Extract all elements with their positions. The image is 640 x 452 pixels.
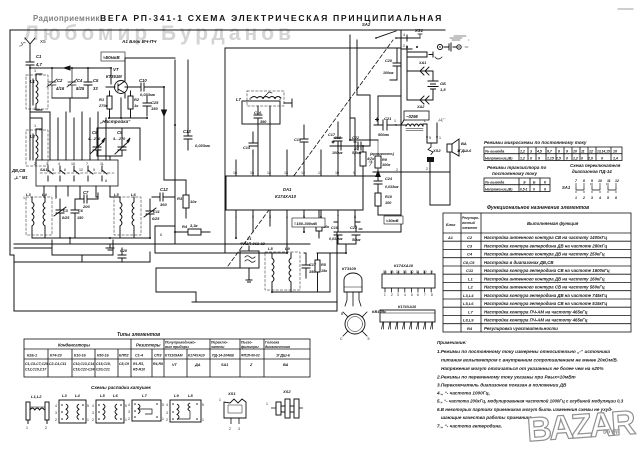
inductor L5 L6 pinout xyxy=(92,393,127,423)
capacitor C19 xyxy=(329,226,343,244)
svg-text:“: “ xyxy=(468,38,470,43)
svg-text:С25: С25 xyxy=(151,100,159,105)
transistor package KT3109 xyxy=(342,266,362,306)
svg-text:6/25: 6/25 xyxy=(152,217,160,221)
svg-text:4…270: 4…270 xyxy=(112,137,126,141)
ground xyxy=(106,244,114,250)
IC package bottom view xyxy=(380,305,435,329)
svg-text:7: 7 xyxy=(575,179,578,183)
svg-text:С11: С11 xyxy=(466,268,474,273)
svg-text:Напряжения могут отличаться от: Напряжения могут отличаться от указанных… xyxy=(441,365,604,371)
svg-text:3: 3 xyxy=(55,411,57,415)
svg-text:2: 2 xyxy=(426,167,428,171)
svg-text:SA1: SA1 xyxy=(221,363,228,367)
svg-text:„Ц“¯: „Ц“¯ xyxy=(438,117,447,122)
svg-text:динамическая: динамическая xyxy=(265,345,290,349)
svg-text:С2: С2 xyxy=(57,78,63,83)
svg-text:4: 4 xyxy=(403,33,405,37)
svg-text:1,8: 1,8 xyxy=(440,87,446,92)
speaker BA xyxy=(447,139,472,156)
svg-text:элемент: элемент xyxy=(462,226,477,230)
capacitor C25 xyxy=(143,96,159,116)
svg-text:0,033мк: 0,033мк xyxy=(195,143,211,148)
svg-text:ХS2: ХS2 xyxy=(432,148,441,153)
svg-text:„L“ М1: „L“ М1 xyxy=(13,175,28,180)
svg-text:С20: С20 xyxy=(120,249,128,253)
node notes xyxy=(436,340,624,429)
svg-text:L3,L4: L3,L4 xyxy=(463,293,474,298)
capacitor C10 xyxy=(125,78,164,97)
svg-text:1: 1 xyxy=(87,418,89,422)
svg-text:390: 390 xyxy=(260,120,267,124)
inductor L3 L4 tank xyxy=(26,192,52,238)
svg-text:С24: С24 xyxy=(385,177,393,181)
svg-text:4: 4 xyxy=(92,404,94,408)
connector XS2 xyxy=(373,143,450,205)
svg-text:3: 3 xyxy=(279,97,281,101)
svg-text:С2-С4,С11: С2-С4,С11 xyxy=(49,362,66,366)
svg-text:R1-R3,: R1-R3, xyxy=(133,362,144,366)
svg-text:3,3к: 3,3к xyxy=(190,223,199,228)
svg-text:R2: R2 xyxy=(134,97,140,102)
svg-text:С5: С5 xyxy=(93,78,99,83)
svg-text:Э: Э xyxy=(367,337,370,341)
svg-text:R1: R1 xyxy=(99,97,105,102)
resistor R1 xyxy=(98,91,112,118)
svg-text:ХА1: ХА1 xyxy=(418,61,426,65)
svg-text:R5-R10: R5-R10 xyxy=(133,368,145,372)
svg-text:С13: С13 xyxy=(183,129,191,134)
svg-text:1,2: 1,2 xyxy=(573,156,578,160)
inductor L2 shield xyxy=(26,130,48,166)
corner mark top right xyxy=(618,8,633,10)
svg-text:L7: L7 xyxy=(468,309,473,314)
svg-text:14: 14 xyxy=(396,270,400,274)
svg-text:Выполняемая функция: Выполняемая функция xyxy=(527,221,579,226)
svg-text:5: 5 xyxy=(162,403,164,407)
svg-text:5: 5 xyxy=(411,293,413,297)
capacitor C2 trimmer xyxy=(47,68,65,98)
svg-text:L7: L7 xyxy=(236,97,242,102)
inductor L8 L9 xyxy=(265,245,300,292)
switch SA2 xyxy=(362,22,401,39)
svg-text:1,4: 1,4 xyxy=(613,156,618,160)
svg-text:33: 33 xyxy=(93,86,98,91)
svg-text:L2: L2 xyxy=(468,285,473,290)
variable capacitor C8 xyxy=(87,130,105,156)
svg-text:L5,L6: L5,L6 xyxy=(463,301,474,306)
svg-text:12: 12 xyxy=(589,150,593,154)
svg-text:L4: L4 xyxy=(42,192,47,197)
svg-text:8/25: 8/25 xyxy=(76,86,85,91)
svg-text:13: 13 xyxy=(403,270,407,274)
capacitor C24 xyxy=(374,177,399,193)
svg-text:С11: С11 xyxy=(153,210,160,214)
svg-text:К174ХА10: К174ХА10 xyxy=(398,305,417,309)
svg-text:0,033мк: 0,033мк xyxy=(329,237,343,241)
svg-text:BAZAR: BAZAR xyxy=(526,404,637,449)
svg-text:ВА: ВА xyxy=(283,363,289,367)
svg-text:5.„ “- частота 200кГц, модулир: 5.„ “- частота 200кГц, модулированная ча… xyxy=(437,399,624,404)
svg-text:R3: R3 xyxy=(177,196,183,201)
svg-text:150: 150 xyxy=(77,216,84,220)
svg-text:3: 3 xyxy=(128,410,130,414)
svg-text:С3: С3 xyxy=(63,209,69,213)
svg-text:Регулиро-: Регулиро- xyxy=(462,216,480,220)
diode package KV109 xyxy=(340,309,387,341)
svg-text:10к: 10к xyxy=(190,199,197,204)
svg-text:SA1: SA1 xyxy=(562,185,571,190)
svg-text:2: 2 xyxy=(34,162,36,166)
svg-text:2: 2 xyxy=(92,418,94,422)
capacitor C22 xyxy=(350,136,370,155)
wire dashed mechanical link SA1-SA2 xyxy=(228,40,393,266)
contacts xyxy=(48,166,107,181)
svg-text:8: 8 xyxy=(558,150,560,154)
svg-text:150: 150 xyxy=(151,106,158,111)
capacitor C26 xyxy=(118,248,128,262)
inductor L7 pinout xyxy=(128,393,164,421)
wire verticals into SA1 xyxy=(30,112,106,160)
svg-text:Функциональное назначение эл: Функциональное назначение элементов xyxy=(487,205,589,211)
wire L7 to IC xyxy=(258,106,270,176)
svg-text:Режимы транзистора по: Режимы транзистора по xyxy=(487,165,546,170)
node junction dots xyxy=(29,46,418,293)
svg-text:Z1: Z1 xyxy=(246,237,251,241)
svg-text:11: 11 xyxy=(100,162,104,166)
wire right section joins xyxy=(338,95,401,215)
svg-text:ХS1: ХS1 xyxy=(227,391,236,396)
svg-text:1: 1 xyxy=(26,426,28,430)
svg-text:9: 9 xyxy=(93,168,95,172)
capacitor C23 xyxy=(350,226,362,244)
svg-text:4.„ “- частота 1000Гц,: 4.„ “- частота 1000Гц, xyxy=(436,391,490,396)
svg-text:1.Режимы по постоянному току и: 1.Режимы по постоянному току измерены от… xyxy=(437,349,610,354)
wire SA1 to tanks xyxy=(44,186,110,199)
svg-text:1: 1 xyxy=(575,196,577,200)
svg-text:L9: L9 xyxy=(285,246,290,251)
svg-text:0: 0 xyxy=(566,156,568,160)
svg-text:SA1: SA1 xyxy=(40,168,47,172)
svg-text:вые приборы: вые приборы xyxy=(165,345,189,349)
svg-text:С22: С22 xyxy=(352,136,360,140)
resistor R5 xyxy=(315,253,328,292)
svg-text:Типы элементов: Типы элементов xyxy=(117,332,160,338)
svg-text:0: 0 xyxy=(533,187,535,191)
node pin labels small xyxy=(23,107,247,237)
svg-text:С1: С1 xyxy=(36,54,42,59)
svg-text:~0298: ~0298 xyxy=(406,114,418,119)
node table1 xyxy=(484,147,622,161)
frame block A1 xyxy=(10,30,445,311)
svg-text:А1 Блок ВЧ-ПЧ: А1 Блок ВЧ-ПЧ xyxy=(121,39,157,44)
svg-text:R4,R9: R4,R9 xyxy=(153,362,163,366)
wire IC bottom pins xyxy=(236,210,355,253)
svg-text:ВЕГА РП-341-1 СХЕМА ЭЛЕКТРИЧ: ВЕГА РП-341-1 СХЕМА ЭЛЕКТРИЧЕСКАЯ ПРИНЦИ… xyxy=(100,13,443,23)
svg-text:С8,С9: С8,С9 xyxy=(119,362,129,366)
svg-text:15: 15 xyxy=(390,270,394,274)
svg-text:1: 1 xyxy=(23,196,25,200)
svg-text:50мк: 50мк xyxy=(352,238,361,242)
filter Z1 xyxy=(240,237,266,282)
svg-text:Радиоприемник: Радиоприемник xyxy=(33,14,100,23)
svg-text:КТ361М: КТ361М xyxy=(106,74,122,79)
svg-text:2: 2 xyxy=(55,196,57,200)
svg-text:С1,С5-С7,С25,: С1,С5-С7,С25, xyxy=(25,362,49,366)
connector XA2 xyxy=(416,96,429,109)
svg-text:С1-4: С1-4 xyxy=(135,354,143,358)
svg-text:8: 8 xyxy=(431,293,433,297)
svg-text:6: 6 xyxy=(544,187,546,191)
svg-text:шающие качества работы приемни: шающие качества работы приемника. xyxy=(441,414,533,420)
svg-text:3: 3 xyxy=(238,427,240,431)
svg-text:К: К xyxy=(544,181,547,185)
svg-text:1ГДШ-6: 1ГДШ-6 xyxy=(276,354,291,358)
svg-text:К174ХА10: К174ХА10 xyxy=(188,354,205,358)
wire long mid verticals xyxy=(162,87,167,180)
svg-text:1,2: 1,2 xyxy=(520,150,525,154)
connector XS2 drawing xyxy=(266,389,303,418)
wire mid bottom buses xyxy=(155,226,337,302)
resistor R9 potentiometer volume xyxy=(369,140,395,177)
svg-text:Примечание:: Примечание: xyxy=(437,340,467,345)
svg-text:К50-16: К50-16 xyxy=(97,354,110,358)
svg-text:4: 4 xyxy=(55,404,57,408)
svg-text:Настройка контура ПЧ-АМ на час: Настройка контура ПЧ-АМ на частоту 465кГ… xyxy=(484,318,588,323)
svg-text:15к: 15к xyxy=(321,269,328,273)
resistor R7 potentiometer xyxy=(354,146,375,176)
svg-text:5: 5 xyxy=(607,196,609,200)
svg-text:R4: R4 xyxy=(182,224,188,229)
wire tuning gang xyxy=(97,128,140,160)
svg-text:5: 5 xyxy=(87,404,89,408)
svg-text:6: 6 xyxy=(538,156,540,160)
svg-text:Режимы микросхемы по постоя: Режимы микросхемы по постоянному току xyxy=(484,140,587,145)
svg-text:С4: С4 xyxy=(77,78,83,83)
svg-text:12: 12 xyxy=(615,179,619,183)
svg-text:С10: С10 xyxy=(139,78,147,83)
connector XA1 xyxy=(407,52,433,100)
svg-text:6: 6 xyxy=(601,156,603,160)
svg-text:Регулировка чувствительности: Регулировка чувствительности xyxy=(484,326,558,331)
svg-text:1: 1 xyxy=(384,293,386,297)
svg-text:L7: L7 xyxy=(142,393,147,398)
node types table xyxy=(24,332,310,377)
connector XS1 xyxy=(414,28,470,59)
svg-text:2: 2 xyxy=(391,293,393,297)
svg-text:16: 16 xyxy=(383,270,387,274)
svg-text:1: 1 xyxy=(266,402,268,406)
svg-text:Настройка антенного контура СВ: Настройка антенного контура СВ на частот… xyxy=(484,285,605,290)
svg-text:С20,С21: С20,С21 xyxy=(96,368,110,372)
svg-text:9: 9 xyxy=(591,179,593,183)
level label 50mkV xyxy=(101,52,125,61)
svg-text:6: 6 xyxy=(64,168,66,172)
inductor L1,L2 pinout xyxy=(26,394,49,430)
svg-text:10: 10 xyxy=(573,150,577,154)
svg-text:6: 6 xyxy=(615,196,617,200)
svg-text:16: 16 xyxy=(613,150,617,154)
svg-text:4: 4 xyxy=(249,97,251,101)
svg-text:4,5: 4,5 xyxy=(536,150,542,154)
svg-text:L3: L3 xyxy=(62,393,67,398)
IC package K174XA10 xyxy=(382,263,435,297)
antenna X5 xyxy=(25,38,35,52)
resistor R6 xyxy=(310,210,330,238)
svg-text:Резисторы: Резисторы xyxy=(136,343,161,348)
svg-text:1,2: 1,2 xyxy=(520,156,525,160)
svg-text:2: 2 xyxy=(34,107,36,111)
svg-text:С20: С20 xyxy=(385,59,393,63)
connector XS1 drawing xyxy=(219,391,246,431)
svg-text:Настройка контура гетеродина Д: Настройка контура гетеродина ДВ на часто… xyxy=(484,243,607,248)
svg-text:10: 10 xyxy=(71,162,75,166)
svg-text:КТ3109: КТ3109 xyxy=(342,266,357,271)
resistor R10 xyxy=(375,193,393,215)
svg-text:Б: Б xyxy=(533,181,536,185)
wire bottom left box xyxy=(14,240,150,262)
svg-text:270к: 270к xyxy=(98,103,109,108)
svg-text:Настройка контура ПЧ-АМ на час: Настройка контура ПЧ-АМ на частоту 465кГ… xyxy=(484,309,588,314)
svg-text:С4: С4 xyxy=(467,252,473,257)
svg-text:С: С xyxy=(340,337,343,341)
svg-text:≈50мкВ: ≈50мкВ xyxy=(103,55,120,60)
svg-text:R10: R10 xyxy=(385,195,393,199)
capacitor C16 xyxy=(254,106,267,124)
svg-text:2: 2 xyxy=(582,196,585,200)
svg-text:2: 2 xyxy=(396,168,398,172)
svg-text:12: 12 xyxy=(410,270,414,274)
wire bottom of amp xyxy=(109,98,147,118)
svg-text:Конденсаторы: Конденсаторы xyxy=(58,343,90,348)
svg-text:L4: L4 xyxy=(75,393,80,398)
resistor R2 xyxy=(128,91,140,118)
svg-text:4,7: 4,7 xyxy=(35,62,42,67)
capacitor C1 xyxy=(26,52,42,68)
svg-text:200: 200 xyxy=(82,204,90,209)
wire vertical left xyxy=(29,68,31,160)
svg-text:2: 2 xyxy=(229,427,231,431)
svg-text:С14: С14 xyxy=(243,146,251,150)
svg-text:1: 1 xyxy=(34,124,36,128)
transformer T1 xyxy=(401,111,447,143)
capacitor C11 trimmer xyxy=(144,199,160,238)
svg-text:10: 10 xyxy=(423,270,427,274)
svg-text:С18: С18 xyxy=(334,136,342,140)
svg-text:2: 2 xyxy=(166,418,168,422)
svg-text:постоянному току: постоянному току xyxy=(492,171,538,176)
switch SA1 block xyxy=(36,160,118,186)
capacitor C13 xyxy=(183,128,211,150)
svg-text:С2: С2 xyxy=(467,235,473,240)
svg-text:№ вывода: № вывода xyxy=(485,181,504,185)
svg-text:GБ: GБ xyxy=(440,81,446,86)
svg-text:Настройка антенного контура ДВ: Настройка антенного контура ДВ на частот… xyxy=(484,276,605,281)
capacitor C21 xyxy=(374,116,401,137)
battery GB xyxy=(407,81,446,100)
svg-text:3: 3 xyxy=(530,150,532,154)
svg-text:3: 3 xyxy=(166,411,168,415)
svg-text:8/25: 8/25 xyxy=(62,216,70,220)
svg-text:С12: С12 xyxy=(160,187,168,192)
svg-text:Настройка антенного контура СВ: Настройка антенного контура СВ на частот… xyxy=(484,235,607,240)
svg-text:360: 360 xyxy=(160,202,167,207)
inductor L1 shield xyxy=(26,75,48,109)
svg-text:С21: С21 xyxy=(384,116,392,121)
IC pin numbers top xyxy=(233,171,355,175)
svg-text:7: 7 xyxy=(86,162,88,166)
op-amp U1 DA1 IC xyxy=(226,176,363,210)
svg-text:ВА: ВА xyxy=(461,141,467,146)
svg-text:3: 3 xyxy=(591,196,593,200)
svg-text:2,6: 2,6 xyxy=(587,156,593,160)
svg-text:Любомир Бурданов: Любомир Бурданов xyxy=(24,22,295,45)
svg-text:L8: L8 xyxy=(188,393,193,398)
svg-text:Полупроводнико-: Полупроводнико- xyxy=(165,341,197,345)
svg-text:8: 8 xyxy=(105,179,107,183)
svg-text:Блок: Блок xyxy=(446,223,456,227)
svg-text:VT: VT xyxy=(172,363,178,367)
svg-text:0: 0 xyxy=(581,156,583,160)
svg-text:6,7: 6,7 xyxy=(547,150,553,154)
svg-text:2: 2 xyxy=(45,426,47,430)
svg-text:2: 2 xyxy=(55,418,57,422)
svg-text:L3: L3 xyxy=(26,192,31,197)
svg-text:4: 4 xyxy=(58,162,60,166)
svg-text:№ вывода: № вывода xyxy=(485,150,504,154)
svg-text:VT: VT xyxy=(113,67,119,72)
svg-text:Схемы распайки катушек: Схемы распайки катушек xyxy=(91,384,152,390)
node table2 xyxy=(484,178,550,192)
svg-text:1ГДШ-6: 1ГДШ-6 xyxy=(457,149,472,153)
svg-text:14: 14 xyxy=(267,171,271,175)
svg-text:С8,С9: С8,С9 xyxy=(463,260,475,265)
wire IC top pins xyxy=(236,118,355,176)
svg-text:Х5: Х5 xyxy=(40,39,46,44)
svg-text:L5: L5 xyxy=(100,393,105,398)
svg-text:4…270: 4…270 xyxy=(87,137,101,141)
transistor VT xyxy=(106,58,175,98)
svg-text:100: 100 xyxy=(385,201,392,205)
svg-text:9: 9 xyxy=(431,270,433,274)
svg-text:К174ХА10: К174ХА10 xyxy=(394,263,414,268)
svg-text:6: 6 xyxy=(160,233,162,237)
inductor L9 L8 pinout xyxy=(166,393,204,422)
svg-text:L1: L1 xyxy=(468,276,473,281)
wire antenna bus xyxy=(30,66,111,70)
svg-text:ФП1П-60-02: ФП1П-60-02 xyxy=(241,354,260,358)
inductor L1 xyxy=(30,74,42,110)
svg-text:0,033мк: 0,033мк xyxy=(385,185,399,189)
svg-text:0,5-1: 0,5-1 xyxy=(520,187,528,191)
svg-text:4: 4 xyxy=(166,403,168,407)
svg-text:А1: А1 xyxy=(447,236,453,240)
svg-text:(громкость): (громкость) xyxy=(370,152,395,156)
svg-text:L9: L9 xyxy=(174,393,179,398)
svg-text:чатели: чатели xyxy=(211,345,225,349)
switch SA1 diagram xyxy=(562,179,619,200)
resistor R3 xyxy=(164,180,197,218)
svg-text:5: 5 xyxy=(202,403,204,407)
svg-text:5: 5 xyxy=(125,404,127,408)
svg-text:2: 2 xyxy=(128,417,130,421)
coil pinout drawings xyxy=(26,384,303,431)
svg-text:0: 0 xyxy=(530,156,532,160)
svg-text:СП3: СП3 xyxy=(154,354,162,358)
svg-text:Схема переключателя: Схема переключателя xyxy=(570,163,621,168)
svg-text:Э: Э xyxy=(523,181,526,185)
svg-text:1: 1 xyxy=(34,69,36,73)
